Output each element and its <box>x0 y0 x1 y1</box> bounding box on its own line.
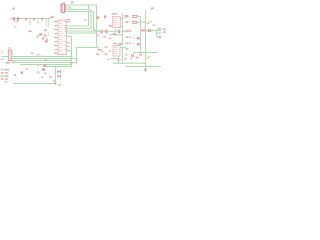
capacitor C1 <box>13 17 14 21</box>
capacitor C5 <box>41 18 42 20</box>
node label top-left <box>13 8 15 10</box>
junction mark x44 y66 <box>44 65 47 67</box>
wire pin4 stub <box>66 10 68 12</box>
connector J1 body <box>62 4 65 12</box>
P2 designator above <box>8 47 11 48</box>
junction dot x71.5 y63.5 <box>71 63 73 65</box>
label y58 <box>107 59 110 61</box>
wire R2 to xtal leg2 <box>137 21 146 23</box>
U1 left pin labels <box>54 21 57 54</box>
wire stub U2 right <box>120 18 123 20</box>
wire nub right of corner <box>97 47 99 49</box>
xtal cap right <box>137 43 140 45</box>
vertical x55.5 <box>55 67 57 84</box>
gnd stub <box>145 67 147 70</box>
label x85 <box>85 19 87 21</box>
capacitor mid B <box>118 30 119 34</box>
value label under C3 <box>28 21 31 22</box>
wire y26.8 <box>115 26 123 28</box>
labels filter <box>143 23 166 39</box>
pin bars near IC1 bottom <box>109 25 111 27</box>
label mid <box>29 31 32 33</box>
IC U3 (bottom small) <box>113 46 120 57</box>
resistor R row2 <box>133 21 137 23</box>
P2 pin1 number <box>1 52 3 53</box>
gnd rail xtal <box>133 52 158 54</box>
labels left x96-108 <box>96 53 100 55</box>
wire v x115.5 faint <box>115 29 117 35</box>
label left of U3 <box>109 50 111 52</box>
capacitor C3 <box>25 18 26 20</box>
labels under caps <box>96 35 99 36</box>
wire cap stubs <box>31 19 49 36</box>
wire v2 <box>90 10 92 29</box>
ground mark under rail <box>139 54 142 56</box>
wire W1 top <box>66 5 97 65</box>
wire v1 <box>88 5 90 26</box>
wire W2 step <box>66 7 91 10</box>
wire 3V3 rail <box>10 18 50 20</box>
U1 right pin numbers <box>65 21 67 50</box>
vertical x122.5 <box>122 14 124 44</box>
labels left column <box>126 30 132 50</box>
J1 label above <box>62 2 65 3</box>
junction dot <box>55 83 57 85</box>
resistor R filter <box>148 30 151 32</box>
cap near y55 <box>132 54 133 57</box>
J1 pin ticks left <box>60 5 62 11</box>
filter comp right <box>146 30 148 32</box>
resistor R row1 <box>133 15 137 17</box>
P2 label below <box>6 62 10 64</box>
U1 right pin wires <box>67 26 100 51</box>
power flag +3V3 <box>50 16 54 18</box>
wire W3 step <box>66 9 94 31</box>
comp D area <box>42 68 45 70</box>
connector P2 <box>8 50 11 61</box>
U1 designator <box>67 19 71 20</box>
labels on y62.5 <box>117 59 121 61</box>
label C row2 <box>14 26 17 27</box>
wire y58.5 short <box>111 58 119 60</box>
wire y31 chain <box>94 30 127 32</box>
wire xtal leg1 <box>140 17 142 53</box>
value label under C1 <box>15 21 18 22</box>
U2 right label <box>124 15 128 16</box>
green fleck <box>148 56 151 57</box>
ground symbol <box>144 69 147 71</box>
labels LED <box>49 76 52 78</box>
label near J1 <box>71 2 73 4</box>
vertical bus x71.5 <box>71 37 73 67</box>
crystal Y1 <box>141 30 146 32</box>
wire stub at reset cluster <box>39 34 40 35</box>
resistor row1 label <box>126 15 129 17</box>
LED D2 <box>57 75 60 78</box>
comp above U3 <box>119 43 122 45</box>
IC U1 body <box>58 20 67 55</box>
capacitor C4 <box>33 18 34 20</box>
bottom rail <box>14 83 56 85</box>
capacitor C2 <box>17 17 18 21</box>
P2 left label <box>1 59 5 60</box>
label above xtal <box>151 8 154 10</box>
value label under C4 <box>36 21 39 22</box>
IC U2 (top small) <box>113 17 121 28</box>
resistor row2 label <box>126 21 129 23</box>
net label dashes over bus <box>31 53 47 60</box>
vertical x122.5 low <box>122 48 124 64</box>
U1 inner pin names <box>59 21 63 52</box>
xtal cap left <box>137 37 140 39</box>
bus lines bottom-left <box>12 52 77 67</box>
wire y34.7 <box>109 34 123 36</box>
wire R1 to xtal <box>137 16 141 18</box>
stub green x148 y21.5 <box>148 21 152 23</box>
capacitor mid A <box>101 30 107 34</box>
reset circuit cluster <box>37 30 48 43</box>
LED D1 <box>57 70 60 73</box>
wire y66.5 long <box>125 66 161 68</box>
comps right of W2 row y=16-19 <box>97 15 105 19</box>
label near W1 corner <box>98 49 102 51</box>
left net labels bottom <box>0 68 28 83</box>
P2 left stub <box>2 56 9 58</box>
wire y44.7 stub <box>118 44 123 46</box>
J1 pin stubs right <box>65 5 67 11</box>
wire xtal leg2 <box>145 10 147 67</box>
wire U3 right stub <box>120 47 126 49</box>
wire y62.5 long <box>113 62 146 64</box>
